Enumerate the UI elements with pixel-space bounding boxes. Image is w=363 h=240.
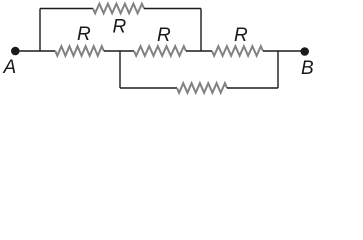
wire bottom left segment	[120, 87, 177, 89]
wire top-left vertical	[39, 9, 41, 52]
resistor R1	[55, 46, 104, 56]
wire bottom-right vertical	[277, 51, 279, 88]
wire top right segment	[144, 8, 201, 10]
svg-text:R: R	[234, 25, 248, 46]
svg-text:R: R	[113, 17, 127, 38]
resistor R bottom	[177, 83, 227, 93]
wire R3 to B	[263, 50, 305, 52]
wire A to R1	[15, 50, 55, 52]
wire R2 to R3	[186, 50, 212, 52]
resistor R3	[212, 46, 263, 56]
resistor R2	[134, 46, 186, 56]
node B	[300, 47, 309, 56]
svg-text:R: R	[77, 24, 91, 45]
svg-text:A: A	[3, 57, 17, 78]
svg-text:B: B	[301, 58, 314, 79]
node A	[11, 47, 20, 56]
svg-text:R: R	[157, 25, 171, 46]
wire top-right vertical	[200, 9, 202, 52]
wire R1 to R2	[104, 50, 134, 52]
wire top left segment	[40, 8, 93, 10]
wire bottom right segment	[227, 87, 278, 89]
resistor R top	[93, 4, 144, 14]
wire bottom-left vertical	[119, 51, 121, 88]
